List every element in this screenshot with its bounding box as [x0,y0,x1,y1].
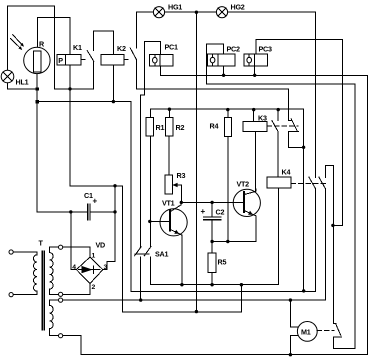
junction node K1 feed [68,87,71,90]
potentiometer R3 [165,175,172,194]
resistor R1 [146,118,153,136]
wire C from node via descender to wire K over to K4 pole A bottom [37,102,315,292]
svg-text:PC3: PC3 [259,45,272,54]
junction node wire L HG descender [195,310,198,313]
svg-text:R2: R2 [176,123,185,132]
wire K3 contact1 top terminal [277,110,279,121]
wire Y74 rail to right descender and bottom rail [63,75,368,354]
junction node wire K F descender [302,289,305,292]
motor M1 link [317,330,334,332]
motor M1 contact blade [336,324,341,335]
junction node K2 feed wire C [112,100,115,103]
svg-text:4: 4 [72,264,76,271]
wire VT1 collector node to VT2 base [181,201,244,203]
relay K4 pole A blade [309,177,316,188]
junction node wire J R5 [210,283,213,286]
light arrow 2 [11,39,23,51]
wire K1 contact top to K2 coil feed down to wire C [94,31,114,102]
wire VT2 emitter descender to emitter rail [255,216,257,242]
photoresistor R [24,47,50,73]
junction node wire J riser [240,283,243,286]
wire C2 top feed [211,202,213,217]
wire bridge v3 jog up to wire G node [103,212,115,270]
wire K4 pole B top jog long descender to M1 contact [325,165,336,323]
junction node PC2 bottom [222,74,225,77]
relay K1 link [81,59,87,61]
svg-text:HL1: HL1 [16,78,29,87]
wire sec1 bottom lead [50,289,59,294]
terminal sec2 top [59,298,63,302]
junction node wire H x115 [113,184,116,187]
wire HG node long descender to wire L [195,12,197,311]
wire K3 contact2 bottom route to F descender [288,132,303,148]
svg-text:R5: R5 [218,258,227,267]
junction node K3 contact1 top [277,108,280,111]
capacitor C1 [88,204,90,220]
junction node PC3 jog [331,224,334,227]
relay K3 link [267,125,298,127]
wire K3 coil bottom to VT2 collector [254,132,256,192]
relay K1 contact bottom terminal [93,61,95,89]
svg-text:R: R [39,40,45,49]
relay K3 contact2 blade [291,119,297,131]
transistor VT1 [152,202,187,240]
wire HG rail between lamps [165,11,217,13]
wire PC3 bottom feed [254,66,256,76]
wire photoresistor bottom column down to wire G [36,74,38,212]
svg-text:C2: C2 [216,208,225,217]
junction node VT1 collector [180,201,183,204]
switch SA1 tie bar [135,253,149,255]
junction node bottom rail M1 [289,353,292,356]
wire primary top lead [13,252,37,255]
resistor R5 [208,253,216,272]
junction node HL1/R [36,87,39,90]
junction node wire G x115 [113,210,116,213]
wire R5 top feed [211,242,213,254]
wire K4 pole B bottom to sec2 rail end [324,189,326,300]
capacitor C2 [204,217,221,220]
svg-text:VD: VD [96,241,106,250]
svg-text:R1: R1 [156,123,165,132]
junction node wire G bridge v4 [69,210,72,213]
relay K1 contact blade [87,51,93,62]
transformer T primary winding [34,255,37,291]
terminal sec1 top [59,245,63,249]
wire R4 bottom feed to emitter wire [227,137,229,242]
svg-text:K2: K2 [117,44,126,53]
terminal sec1 bottom [59,292,63,296]
wire HL1 bottom to node at photoresistor column [7,83,37,89]
svg-text:+: + [201,207,206,216]
wire R2 bottom to R3 top [168,136,170,175]
svg-text:HG1: HG1 [168,3,182,12]
lamp HL1 [1,70,14,83]
svg-text:PC2: PC2 [227,45,240,54]
svg-text:R4: R4 [210,122,219,131]
junction node PC3 bottom [253,74,256,77]
svg-text:SA1: SA1 [155,250,168,259]
wire HG lamp rail left stem from K2 contact [137,12,154,48]
wire sec2 bottom lead [50,329,59,336]
svg-text:HG2: HG2 [231,3,245,12]
photorelay PC3 coil [254,54,267,66]
wire VT2 emitter rail [212,241,256,243]
junction node sec2 rail SA1 [139,298,142,301]
junction node C2 top [210,201,213,204]
wire R1 bottom through VT1 base node to SA1 right pole [149,136,151,247]
wire SA1 left pole lower part to sec2 wire node [140,257,142,300]
wire bridge v2 to sec1 bottom lead [63,284,90,295]
svg-text:K4: K4 [282,168,291,177]
wire M1 lower feed [290,336,297,355]
transformer T secondary2 winding [50,306,53,329]
wire PC2 top feed down left side to wire D over to M1 contact bottom [206,44,355,349]
junction node emitter rail C2 R5 [210,240,213,243]
wire sec2 top lead [50,300,59,305]
wire sec2 top rail [63,299,326,301]
wire PC3 top feed over to right descender and jog node [256,39,342,225]
motor M1 [297,322,317,342]
wire node link vertical x115 [114,186,116,212]
junction node wire J VT1 emitter [180,283,183,286]
junction node sec2 rail M1 [289,298,292,301]
photorelay PC1 small box [150,54,160,65]
wire photoresistor top feed and K1 coil feed [37,18,70,89]
wire primary bottom lead [13,291,37,295]
wire VT1 base lead [150,220,170,222]
terminal sec2 bottom [59,334,63,338]
junction node emitter rail R4 [226,240,229,243]
relay K4 coil [267,177,291,188]
diode bridge VD [76,257,103,284]
potentiometer R3 wiper arrow [172,183,177,187]
svg-text:1: 1 [92,253,96,260]
photorelay PC3 small box [244,54,255,66]
transformer T secondary1 winding [50,253,53,289]
wire VT1 emitter descender to wire J [181,235,183,285]
junction node HG rail [195,11,198,14]
relay K2 coil [101,55,124,66]
wire K3 contact1 bottom to K4 coil top [277,132,279,177]
svg-text:T: T [39,239,44,248]
wire R4 top feed [227,110,229,118]
wire K4 pole A bottom [314,189,316,292]
svg-text:M1: M1 [301,328,311,337]
svg-text:3: 3 [104,264,108,271]
wire HG rail to right descender K4 pole A top [228,12,316,177]
relay K3 contact1 blade [272,121,278,132]
wire PC1 bottom feed [160,66,162,76]
svg-text:R3: R3 [177,171,186,180]
svg-text:2: 2 [92,284,96,291]
junction node R4 top [226,108,229,111]
wire SA1 right pole lower to wire J over to K4 coil bottom riser [150,188,278,285]
wire G left portion to C1 [37,211,87,213]
wire E from K2 contact bottom to K3 contact2 top [137,60,291,121]
wire K3 coil top feed [253,110,255,122]
wire F rail from R1 top with right descender to wire K [150,109,303,291]
transformer T core [42,251,44,330]
lamp HG1 [153,7,164,18]
junction node K3 coil top [252,108,255,111]
transistor VT2 [233,189,260,218]
svg-text:VT2: VT2 [237,180,250,189]
junction node wire C left [36,100,39,103]
junction node K3 contact2 bottom [302,146,305,149]
lamp HG2 [216,7,227,18]
svg-text:K3: K3 [258,114,267,123]
svg-text:VT1: VT1 [162,199,175,208]
wire PC1 top feed jog down through SA1 left pole upper part [141,41,161,247]
photorelay PC2 small box [207,54,218,66]
svg-text:+: + [93,197,98,206]
relay K3 coil [243,122,267,132]
terminal primary bottom [9,293,13,297]
resistor R2 [166,118,173,136]
junction node VT1 base R1 [148,220,151,223]
relay K4 link [291,182,327,184]
relay K1 P box [57,55,66,66]
wire bridge v4 feed from wire G node [71,212,77,270]
svg-text:K1: K1 [73,43,82,52]
relay K4 pole B blade [319,177,325,188]
terminal primary top [9,250,13,254]
wire R5 bottom feed to wire J [211,272,213,284]
wire sec1 top lead [50,247,59,252]
wire C2 bottom feed [211,220,213,242]
wire R2 top feed [168,109,170,117]
photorelay PC2 coil [218,54,235,66]
light arrow 1 [13,35,24,47]
resistor R4 [224,117,231,136]
relay K1 coil [66,55,82,66]
wire R3 wiper down to collector node [172,185,181,202]
wire bridge v1 to sec1 top lead [63,247,90,257]
wire G right portion C1 to node [91,211,115,213]
relay K2 contact blade [130,48,136,60]
switch SA1 blade right [144,247,151,256]
switch SA1 blade left [135,247,142,256]
svg-text:PC1: PC1 [165,43,178,52]
photorelay PC1 coil [160,54,173,65]
wire M1 upper feed [290,300,297,327]
svg-text:P: P [58,56,63,65]
wire H from K1 node down over wire L and riser to wire J [70,89,241,312]
junction node R2 top [168,108,171,111]
relay K2 link [124,59,131,61]
wire PC2 bottom feed [223,66,225,76]
wire top-left loop from HL1 up and over to wire B corner [7,6,93,89]
